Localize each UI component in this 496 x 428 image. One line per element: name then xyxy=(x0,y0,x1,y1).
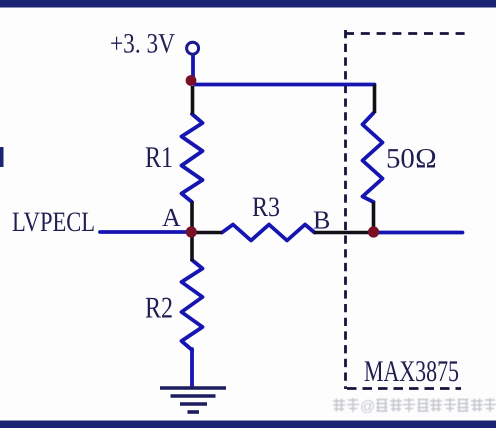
svg-text:50Ω: 50Ω xyxy=(386,144,437,175)
svg-text:R2: R2 xyxy=(145,292,173,325)
svg-text:R3: R3 xyxy=(252,192,280,223)
svg-text:+3. 3V: +3. 3V xyxy=(110,29,175,60)
svg-text:R1: R1 xyxy=(145,141,173,174)
svg-text:B: B xyxy=(313,206,330,235)
svg-text:LVPECL: LVPECL xyxy=(12,207,95,238)
svg-text:MAX3875: MAX3875 xyxy=(364,355,459,388)
svg-text:@: @ xyxy=(360,398,375,415)
svg-text:A: A xyxy=(162,203,181,232)
